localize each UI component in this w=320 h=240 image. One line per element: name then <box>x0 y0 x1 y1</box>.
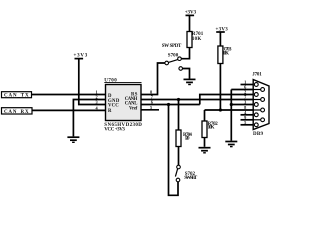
wire gnd drop <box>230 90 232 141</box>
wire DB9 pin 3 gnd row <box>231 104 253 106</box>
svg-text:Vref: Vref <box>129 107 138 112</box>
resistor R704 120 <box>176 130 192 147</box>
wire R704 to S702 <box>178 147 180 166</box>
node R703 junction <box>219 108 222 111</box>
op-amp U700 SN65HVD230D <box>104 79 142 133</box>
wire R702 to ground <box>204 138 206 147</box>
wire +3V3 to VCC pin 3 <box>79 59 106 105</box>
switch S700 SW SPDT <box>162 44 183 70</box>
switch S702 SW-SBT <box>175 165 197 182</box>
wire CANL from pin 6 <box>141 104 200 106</box>
wire DB9 pin 5 stub <box>241 124 254 126</box>
wire R701 to S700 common <box>181 48 189 59</box>
wire DB9 pin 9 stub <box>241 119 254 121</box>
wire DB9 pin 6 gnd row <box>231 89 253 91</box>
wire S700 throw 2 to ground <box>183 69 190 79</box>
wire divider row to DB9 pin 8 <box>205 109 254 111</box>
svg-text:SW-SBT: SW-SBT <box>184 176 198 181</box>
svg-text:R: R <box>108 109 112 114</box>
svg-text:J701: J701 <box>252 72 262 77</box>
ground (DB9) <box>225 142 237 147</box>
wire CANH to R704 <box>178 100 180 131</box>
svg-text:U700: U700 <box>104 79 117 84</box>
connector J701 DB9 <box>252 72 269 137</box>
port CAN_TX <box>2 92 32 99</box>
ground (R702) <box>199 148 211 153</box>
resistor R703 10K <box>218 46 232 64</box>
svg-text:S700: S700 <box>168 54 179 59</box>
wire CANL jog up to DB9 pin 2 row <box>200 95 253 105</box>
ground (S700) <box>184 79 196 84</box>
wire R703 down to divider node <box>219 64 221 111</box>
resistor R701 10K <box>187 32 204 48</box>
svg-text:10K: 10K <box>222 51 229 56</box>
node gnd junction pin3 <box>230 103 233 106</box>
wire CAN_TX to U700 pin 1 <box>32 94 106 96</box>
svg-text:5: 5 <box>244 120 246 125</box>
svg-text:CAN_RX: CAN_RX <box>4 110 29 115</box>
svg-text:3: 3 <box>244 100 246 105</box>
svg-text:10K: 10K <box>192 37 202 42</box>
svg-text:SW SPDT: SW SPDT <box>162 44 182 49</box>
node CANH junction R704 <box>177 98 180 101</box>
power +3V3 (left, VCC) <box>74 54 88 59</box>
wire GND pin 2 <box>73 100 105 137</box>
ground (chip GND) <box>67 137 79 142</box>
svg-text:120: 120 <box>185 137 190 142</box>
wire Vref stub pin 5 <box>141 109 159 111</box>
wire RS pin 8 to switch S700 <box>141 63 165 95</box>
wire CANH net <box>141 99 253 101</box>
power +3V3 (top, R701) <box>185 10 197 15</box>
svg-text:8: 8 <box>150 89 152 94</box>
svg-text:3: 3 <box>95 100 97 105</box>
wire +3V3 to R703 <box>219 32 221 46</box>
wire CAN_RX to U700 pin 4 <box>32 109 106 111</box>
wire +3V3 to R701 <box>189 15 191 31</box>
svg-text:10K: 10K <box>208 126 215 131</box>
resistor R702 10K <box>202 121 218 138</box>
node CANL junction termination <box>167 103 170 106</box>
wire S702 loop to CANL <box>169 105 179 196</box>
port CAN_RX <box>2 108 33 115</box>
svg-text:DB9: DB9 <box>253 132 264 137</box>
wire DB9 pin 4 stub <box>241 114 254 116</box>
svg-text:VCC +3V3: VCC +3V3 <box>104 128 125 133</box>
svg-text:CAN_TX: CAN_TX <box>4 94 29 99</box>
svg-text:VCC: VCC <box>108 104 119 109</box>
power +3V3 (right, R703) <box>216 27 229 32</box>
wire divider node down to R702 <box>204 110 206 121</box>
wire DB9 pin 1 stub <box>241 84 254 86</box>
